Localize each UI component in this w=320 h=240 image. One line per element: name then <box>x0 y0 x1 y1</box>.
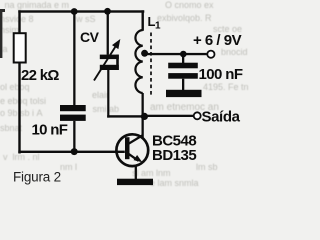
wire: 10nF lower lead <box>73 121 75 152</box>
inductor L1 dashed core <box>150 33 152 96</box>
trimmer capacitor CV right bar <box>116 55 119 70</box>
node: junction dot 100nF top <box>180 51 187 58</box>
capacitor 100nF plate 2 <box>168 73 198 79</box>
svg-text:BD135: BD135 <box>152 147 196 164</box>
wire: top rail <box>18 10 144 12</box>
wire: left branch lower <box>18 63 20 154</box>
wire: CV bottom to collector node <box>107 115 145 117</box>
wire: base line <box>18 151 125 153</box>
svg-text:smi ab: smi ab <box>90 104 119 114</box>
svg-text:1: 1 <box>155 21 161 32</box>
svg-text:4195. Fe tn: 4195. Fe tn <box>203 82 249 92</box>
transistor Q1 collector stroke <box>129 135 144 144</box>
node: junction dot base line <box>71 148 78 155</box>
capacitor 10nF plate 1 <box>60 105 86 111</box>
node: collector junction dot <box>141 113 148 120</box>
svg-text:10 nF: 10 nF <box>32 121 68 138</box>
resistor 22k body <box>14 33 26 62</box>
node: junction dot top rail / 10nF <box>71 8 78 15</box>
wire: emitter lead <box>135 165 137 180</box>
svg-text:Figura 2: Figura 2 <box>13 169 61 184</box>
wire: 100nF lower lead <box>182 79 184 91</box>
terminal: +6/9V open circle <box>207 51 214 58</box>
transistor Q1 base bar <box>125 137 130 159</box>
transistor Q1 circle <box>116 134 148 166</box>
node: junction dot top rail / CV <box>104 8 111 15</box>
trimmer capacitor CV arrow <box>94 39 120 81</box>
wire: CV lower lead <box>107 70 109 118</box>
capacitor 10nF plate 2 <box>60 115 86 121</box>
wire: collector lead <box>142 116 144 137</box>
faint bleed-through background text <box>0 0 249 188</box>
transistor Q1 emitter stroke with arrow <box>129 154 143 163</box>
wire: output line to Saida <box>145 115 194 117</box>
wire: coil below to collector node <box>142 93 144 117</box>
wire: 100nF upper lead <box>182 54 184 64</box>
svg-text:sl am lnm: sl am lnm <box>132 168 171 178</box>
wire: top rail corner down to L1 <box>142 10 144 31</box>
svg-text:CV: CV <box>80 29 100 45</box>
wire: 10nF upper lead <box>73 12 75 106</box>
wire: left branch upper <box>18 10 20 34</box>
capacitor 100nF plate 1 <box>168 63 198 69</box>
trimmer capacitor CV plate 1 <box>100 55 119 60</box>
svg-text:+ 6 / 9V: + 6 / 9V <box>193 32 242 49</box>
svg-text:Saída: Saída <box>202 109 241 126</box>
ground bar (emitter) <box>117 179 153 185</box>
svg-text:o 9b sb i A: o 9b sb i A <box>0 108 43 118</box>
svg-text:elair: elair <box>92 90 109 100</box>
wire: CV upper lead <box>107 11 109 55</box>
svg-text:e lam snmla: e lam snmla <box>150 178 199 188</box>
svg-text:na gnimada e m: na gnimada e m <box>2 0 69 10</box>
svg-text:nsvioe 8: nsvioe 8 <box>0 14 34 24</box>
inductor L1 coil <box>135 30 142 93</box>
svg-text:22 kΩ: 22 kΩ <box>21 67 59 84</box>
svg-text:w sS: w sS <box>75 14 96 24</box>
trimmer capacitor CV plate 2 <box>100 65 119 70</box>
svg-text:exbivolqob. R: exbivolqob. R <box>157 13 212 23</box>
svg-text:lm sb: lm sb <box>196 162 218 172</box>
figure frame remnant (left edge) <box>0 9 2 58</box>
svg-text:e eboq tolsi: e eboq tolsi <box>0 96 46 106</box>
ground bar (100nF) <box>166 90 202 97</box>
node: coil tap dot <box>141 50 148 57</box>
svg-text:100 nF: 100 nF <box>199 66 243 83</box>
svg-text:O cnomo ex: O cnomo ex <box>165 0 214 10</box>
terminal: Saida open circle <box>194 112 201 119</box>
wire: tap to +V terminal <box>145 53 207 55</box>
svg-text:nm l: nm l <box>60 162 77 172</box>
svg-text:v lrm . nl: v lrm . nl <box>3 152 40 162</box>
